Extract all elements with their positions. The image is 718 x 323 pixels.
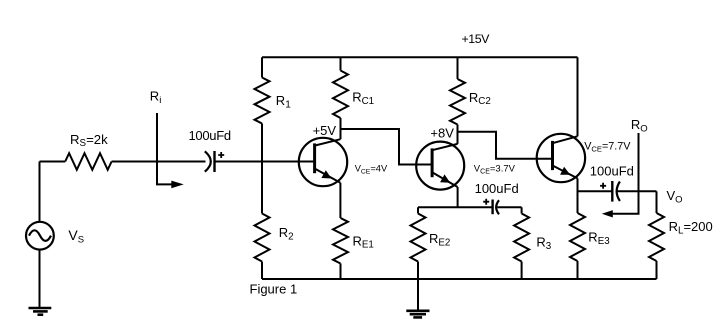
svg-text:100uFd: 100uFd <box>590 163 634 178</box>
svg-text:100uFd: 100uFd <box>189 128 231 143</box>
svg-text:VCE=3.7V: VCE=3.7V <box>474 164 516 176</box>
svg-text:+15V: +15V <box>462 32 491 46</box>
svg-text:+5V: +5V <box>313 123 337 138</box>
svg-text:+8V: +8V <box>430 126 454 141</box>
svg-text:100uFd: 100uFd <box>475 181 519 196</box>
svg-text:Figure 1: Figure 1 <box>250 282 298 297</box>
svg-text:RS=2k: RS=2k <box>70 132 108 149</box>
svg-text:VCE=7.7V: VCE=7.7V <box>584 140 631 153</box>
svg-text:RL=200: RL=200 <box>669 219 713 236</box>
